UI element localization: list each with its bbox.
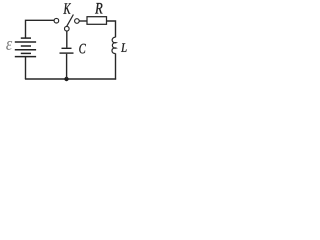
wire: resistor to top-right corner, down to coil [107,21,116,37]
wire: coil bottom to bottom-right corner [115,53,117,79]
label K [63,3,71,13]
resistor R box [87,17,107,25]
capacitor branch lower wire [66,54,68,79]
junction node dot [64,77,68,81]
label epsilon (EMF) [6,41,12,50]
label R [95,3,103,14]
wire: right contact to resistor [79,20,87,22]
wire: battery top to top-left corner to switch left contact [26,20,55,38]
label L [121,43,127,51]
switch K lever [67,15,74,27]
inductor L coil (3 loops) [112,37,116,53]
battery cell E (6 plates) [15,38,36,57]
wire: battery bottom to bottom-left corner [25,57,27,79]
capacitor C plates [60,48,74,53]
capacitor branch upper wire [66,31,68,48]
switch K right contact [75,19,80,24]
bottom wire [25,78,116,80]
label C [79,44,86,54]
switch K left contact [54,18,59,23]
switch K pivot [65,26,70,31]
